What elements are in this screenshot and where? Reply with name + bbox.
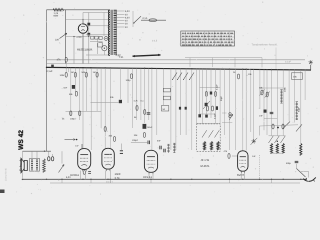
wave-change star (252, 141, 256, 142)
wire col x88 (88, 13, 90, 64)
cap blob left (72, 85, 75, 89)
wire heater tap (117, 10, 125, 12)
svg-text:JF 1 W: JF 1 W (201, 159, 210, 162)
res above V3 (143, 133, 145, 138)
junction x74 (73, 36, 74, 37)
tick d (261, 58, 263, 68)
rectifier tube (78, 24, 87, 33)
junction rail (66, 67, 67, 68)
junction spk (44, 151, 45, 152)
svg-text:1nF: 1nF (259, 115, 263, 118)
wire trafo stub b (36, 151, 38, 158)
box comp row (91, 36, 94, 39)
junction bottom (259, 179, 260, 180)
svg-text:4V: 4V (125, 13, 128, 16)
svg-text:100p: 100p (126, 79, 132, 82)
junction x88 (88, 36, 89, 37)
wire box right (103, 13, 105, 37)
corner mark (0, 190, 5, 194)
scan noise specks (4, 2, 318, 195)
junction rail (105, 67, 106, 68)
wire fuse feed (141, 19, 166, 21)
junction bottom (170, 179, 171, 180)
svg-text:3,7k: 3,7k (115, 177, 121, 180)
junction rail (229, 69, 230, 70)
tick bottom f (271, 179, 273, 183)
wire tube pin (152, 174, 154, 179)
wire above V3 (131, 141, 147, 143)
rail bottom 1 (23, 178, 308, 180)
box small c (161, 106, 168, 111)
wire speaker top (23, 150, 52, 152)
box bias (98, 42, 102, 47)
cap blob rail (51, 65, 54, 68)
wire band left (258, 126, 260, 136)
diag r4 (296, 124, 302, 131)
switch heater (134, 16, 141, 23)
switch b2 (269, 136, 274, 143)
coil b1 (217, 142, 219, 150)
diag r3 (282, 122, 290, 130)
rail faint upper-mid (185, 57, 262, 59)
wire heater tap (117, 20, 125, 22)
pointer arrow R (147, 54, 160, 57)
resistor row1 (85, 72, 87, 77)
indicator circle (102, 46, 107, 51)
wire band top (259, 125, 298, 126)
svg-text:mst 1-7: mst 1-7 (106, 180, 114, 183)
rail dark (47, 67, 312, 70)
coil right (300, 143, 302, 155)
valve data table (181, 31, 235, 46)
resistor on rail (65, 57, 67, 62)
transformer secondary winding (114, 10, 117, 55)
wire to V4 (232, 155, 238, 157)
svg-text:Lizenz Nr 40: Lizenz Nr 40 (5, 167, 8, 181)
cap right V2 (120, 150, 123, 152)
svg-text:0,1uF: 0,1uF (214, 113, 217, 119)
svg-text:2V: 2V (125, 23, 128, 26)
svg-text:0,1uF: 0,1uF (47, 70, 53, 73)
res r1 (261, 90, 263, 95)
agc arrow (65, 139, 76, 141)
coil b2 (282, 143, 284, 153)
cap rV3 a (159, 146, 161, 150)
svg-text:0,1uF: 0,1uF (285, 60, 291, 63)
coil rV3 (168, 144, 170, 153)
wire top mains (47, 9, 110, 11)
junction rail (300, 69, 301, 70)
cap V1 k a (88, 171, 91, 173)
cap V1 k b (88, 172, 91, 174)
svg-text:5nF: 5nF (157, 140, 161, 143)
coil box dashed (197, 124, 221, 151)
switch voltage selector (60, 33, 67, 38)
wire under tube (66, 36, 89, 38)
junction rail (110, 67, 111, 68)
blob u4 (179, 107, 181, 110)
svg-text:4,5V: 4,5V (116, 54, 121, 57)
wire regel down (103, 51, 105, 55)
junction rail (90, 67, 91, 68)
junction agc (76, 139, 78, 141)
svg-text:M 4671: M 4671 (201, 165, 210, 168)
resistor row1 (96, 72, 98, 77)
blob m5 (198, 114, 201, 117)
res left above V2 (104, 127, 106, 132)
tick bottom a (61, 179, 63, 183)
tube V4 (238, 151, 248, 171)
dial lamp (104, 37, 108, 41)
wire rect top (83, 12, 110, 14)
primary spine (109, 10, 111, 55)
cap rV3 b (163, 149, 165, 153)
loudspeaker (24, 161, 27, 171)
switch b2 (281, 136, 286, 143)
core line 1 (110, 10, 112, 55)
wire heater tap (117, 23, 125, 25)
svg-text:1M: 1M (93, 71, 96, 74)
wire selector drop (64, 10, 66, 64)
cap r3 (270, 111, 274, 113)
wire gnd 3 (308, 171, 310, 177)
blob u3 (216, 106, 218, 110)
junction bottom (110, 179, 111, 180)
wire tap2 (86, 34, 110, 36)
wire rect anode (82, 20, 84, 24)
blob m4 (205, 103, 208, 106)
wire gnd diag (297, 169, 306, 178)
junction bottom (271, 179, 272, 180)
res bank2 b (282, 124, 284, 129)
junction rail (271, 69, 272, 70)
resistor 50k mid (75, 91, 77, 96)
wire h cluster bot (200, 113, 216, 115)
blob m6 (205, 115, 208, 118)
res 47k V4 (228, 154, 230, 159)
junction rail (151, 68, 152, 69)
res V1 k (83, 171, 85, 175)
wire heater tap (117, 26, 125, 28)
junction rail (246, 69, 247, 70)
svg-text:220: 220 (55, 39, 60, 42)
svg-text:50pF: 50pF (298, 106, 301, 112)
junction bottom (283, 179, 284, 180)
junction bottom (300, 179, 301, 180)
output transformer (30, 159, 40, 172)
svg-text:50pF: 50pF (220, 95, 223, 101)
ground symbol (303, 177, 316, 181)
tick b (212, 58, 214, 67)
junction rail (242, 69, 243, 70)
wire trafo stub a (31, 151, 33, 158)
junction rail (144, 68, 145, 69)
wire bank2 bottom (272, 152, 284, 154)
rail mid (47, 63, 302, 65)
svg-text:Tonabnehmer-Anschl.: Tonabnehmer-Anschl. (252, 44, 278, 47)
wire tube pin (85, 171, 87, 180)
wire bank2 top (269, 135, 286, 137)
tick bottom b (90, 179, 92, 183)
cap elko V3 (143, 124, 147, 129)
switch b1 (209, 130, 214, 137)
switch m (229, 114, 233, 120)
svg-text:6,3V: 6,3V (125, 10, 130, 13)
svg-text:500p: 500p (286, 162, 292, 165)
pointer arrow L (133, 55, 146, 58)
dial pointer (133, 55, 161, 56)
junction bottom (82, 179, 83, 180)
junction bottom (191, 179, 192, 180)
svg-text:m: m (139, 39, 141, 42)
junction rail (82, 67, 83, 68)
fuse (149, 19, 157, 22)
out trafo w1 (31, 160, 33, 171)
wire antenna (310, 65, 312, 70)
tube V1 (78, 149, 91, 170)
junction bl (22, 179, 24, 181)
padder cap a (229, 113, 231, 115)
cap mid dark (119, 100, 122, 103)
junction bottom (229, 179, 230, 180)
res m3 (214, 92, 216, 97)
svg-text:1nF: 1nF (252, 155, 256, 158)
switch b2 (275, 136, 280, 143)
wire tap0 (66, 19, 110, 21)
wire mains mid (73, 37, 75, 64)
diag bank2 (251, 138, 258, 145)
wire tap1 (86, 25, 110, 27)
wire heater bracket (132, 11, 134, 27)
vertical bus comb (65, 62, 67, 72)
wire spk l2 (22, 171, 24, 180)
wire tube pin (110, 171, 112, 180)
blob u5 (185, 107, 187, 110)
tick bottom e (229, 179, 231, 183)
wire heater tap (117, 17, 125, 19)
wire spk res stub a (48, 151, 50, 157)
bracket a (222, 121, 232, 123)
junction bank2 (277, 141, 278, 142)
res u2 (211, 106, 213, 111)
resistor mains dropper (53, 9, 64, 11)
junction bottom (61, 179, 62, 180)
wire h r cluster2 (264, 118, 277, 120)
coil b2 (276, 143, 278, 153)
junction bottom (150, 179, 151, 180)
tube V2 (102, 148, 114, 169)
coil rV3 b (173, 143, 175, 153)
res c1 (136, 106, 138, 111)
switch tone (59, 165, 65, 173)
svg-text:4V: 4V (125, 26, 128, 29)
core line 2 (112, 10, 114, 55)
wire tube pin (240, 173, 242, 179)
wire rect cathode (82, 33, 84, 63)
resistor 2k (237, 74, 239, 79)
resistor 131 (130, 74, 132, 79)
junction bottom (90, 179, 91, 180)
svg-text:0 4,5: 0 4,5 (152, 40, 158, 43)
svg-text:6V/07: 6V/07 (237, 174, 245, 177)
res r2 (266, 92, 268, 97)
diag m (203, 101, 210, 109)
tube V3 (144, 150, 157, 172)
wire V1 top (81, 144, 83, 149)
wire col x97 (96, 38, 98, 54)
res bank2 a (272, 124, 274, 129)
svg-text:10nF: 10nF (115, 173, 121, 176)
transformer primary winding (108, 10, 109, 56)
capacitor blob a (87, 23, 90, 26)
tick bottom d (150, 179, 152, 183)
cap bank2 dot (277, 127, 279, 129)
wire mains left vertical (46, 10, 48, 151)
wire tube pin (80, 171, 82, 180)
wire h r cluster (260, 87, 283, 89)
tick c (234, 58, 236, 68)
resistor row1 (65, 72, 67, 77)
wire h cluster top (200, 87, 221, 89)
cap 500p (295, 160, 299, 162)
res u1 (206, 106, 208, 111)
wire switch stub (61, 151, 63, 163)
coil b1 (210, 142, 212, 150)
blob m2 (210, 92, 212, 95)
wire gnd 1 (296, 164, 298, 169)
blob r2 (264, 110, 267, 113)
svg-text:5nF: 5nF (64, 87, 68, 90)
junction rail (46, 67, 47, 68)
res above V2 (113, 137, 115, 142)
svg-text:UCH11: UCH11 (70, 174, 79, 177)
capacitor blob b (87, 33, 90, 36)
box small b (163, 96, 170, 100)
rail bottom 2 (50, 182, 300, 184)
wire tube pin (148, 174, 150, 179)
wire mid h (91, 102, 119, 104)
tick a (189, 58, 191, 67)
wire spk l1 (22, 151, 24, 160)
box 10k (292, 73, 303, 80)
switch cluster (173, 73, 178, 80)
junction bottom (242, 179, 243, 180)
coil b1 (203, 142, 205, 150)
wire box1 top (196, 123, 220, 125)
res m1 (205, 92, 207, 97)
svg-text:~220: ~220 (76, 36, 82, 39)
cap above V3 (147, 141, 149, 145)
wire cap V2 (120, 144, 122, 150)
resistor field (43, 159, 46, 172)
out trafo w2 (36, 160, 38, 171)
coil b2 (270, 143, 272, 153)
svg-text:1M: 1M (71, 71, 74, 74)
wire gnd 2 (301, 170, 309, 172)
svg-text:0,1uF: 0,1uF (216, 84, 219, 90)
padder cap b (229, 115, 231, 117)
svg-text:0,1A: 0,1A (143, 17, 148, 20)
svg-text:WS 42: WS 42 (18, 130, 25, 150)
junction rail (191, 68, 192, 69)
rect anode bar (81, 26, 85, 28)
svg-text:REGELBER.: REGELBER. (77, 47, 93, 51)
wire spk res stub b (52, 154, 54, 157)
junction bottom (107, 179, 108, 180)
wire tap3 (90, 41, 103, 43)
wire heater tap (117, 13, 125, 15)
res spk b (51, 157, 53, 161)
wire dashed agc (259, 155, 261, 179)
switch b1 (202, 130, 207, 137)
secondary spine (116, 10, 118, 55)
diag r1 (260, 90, 265, 96)
wire rect top stub (82, 13, 84, 20)
wire tube pin (105, 171, 107, 180)
wire tap4 (86, 54, 110, 56)
svg-text:6,3V: 6,3V (125, 17, 130, 20)
svg-text:100pF: 100pF (132, 139, 139, 142)
resistor row2 b (79, 111, 81, 116)
tick bottom c (109, 179, 111, 183)
coil ladder r (281, 90, 283, 104)
rail upper (47, 59, 306, 61)
resistor row2 a (70, 111, 72, 116)
wire h 111 (66, 110, 102, 112)
svg-text:4V: 4V (125, 20, 128, 23)
box small a (163, 88, 170, 92)
wire tube pin (243, 173, 245, 179)
resistor row1 (74, 72, 76, 77)
res spk a (48, 157, 50, 161)
rect cathode (81, 30, 85, 31)
antenna star (309, 62, 313, 63)
svg-text:UCL 11: UCL 11 (143, 176, 152, 179)
res c2 (144, 110, 146, 115)
wire pickup (275, 48, 277, 70)
coil ladder r2 (296, 102, 298, 120)
bracket b (222, 112, 227, 114)
switch b1 (215, 130, 220, 137)
cap c3 (147, 112, 151, 114)
svg-text:60W: 60W (54, 14, 60, 17)
junction anode (82, 19, 83, 20)
svg-text:50uF: 50uF (147, 126, 153, 129)
junction bottom (46, 179, 47, 180)
diag r2 (265, 92, 270, 98)
